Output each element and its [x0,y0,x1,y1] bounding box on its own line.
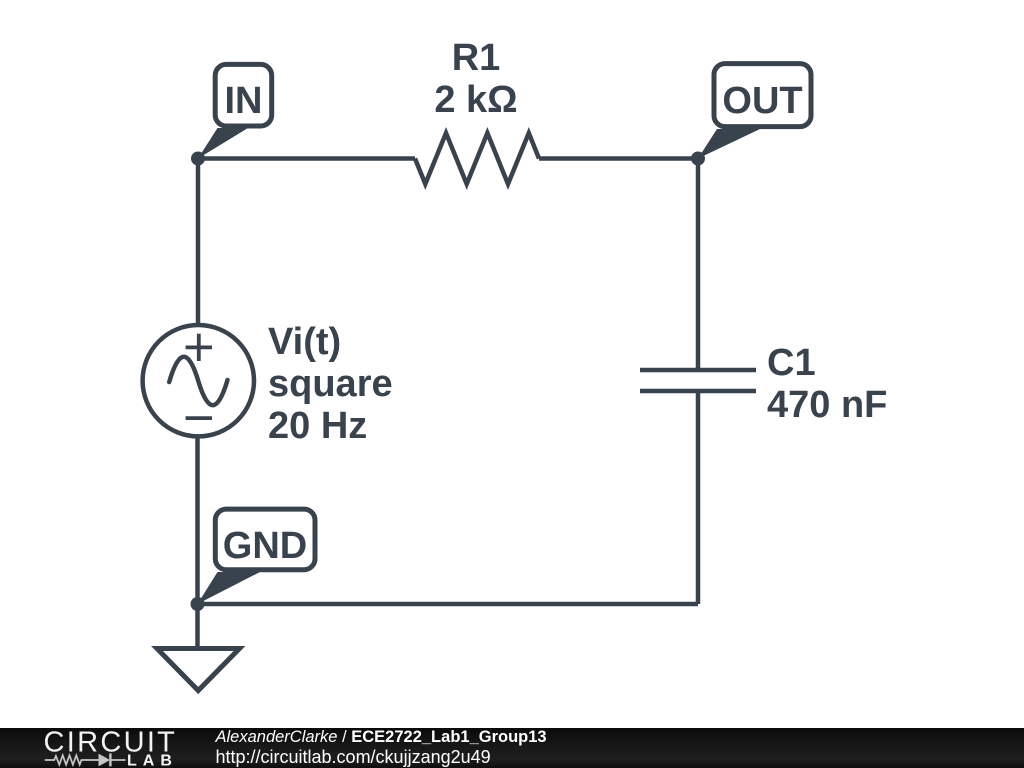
capacitor C1 plates [640,370,756,391]
node OUT flag box [714,64,811,127]
wire left vertical lower (source to GND node) [195,436,200,604]
wire GND stub down [195,604,200,648]
svg-text:2 kΩ: 2 kΩ [434,79,517,121]
svg-text:C1: C1 [767,342,816,384]
voltage source V1 sine [169,357,227,406]
wire bottom horizontal [198,602,699,607]
ground symbol [157,649,240,691]
voltage source V1 circle [143,325,254,436]
svg-text:GND: GND [223,525,307,567]
svg-text:LAB: LAB [127,753,178,768]
svg-text:R1: R1 [452,37,501,79]
svg-text:Vi(t): Vi(t) [268,321,341,363]
CircuitLab logo schematic squiggle (resistor + diode) [45,753,126,766]
svg-text:470 nF: 470 nF [767,384,887,426]
node IN flag box [215,64,272,126]
svg-text:IN: IN [225,80,263,122]
resistor R1 [415,133,539,184]
svg-text:AlexanderClarke / ECE2722_Lab1: AlexanderClarke / ECE2722_Lab1_Group13 [215,728,547,746]
svg-text:OUT: OUT [722,80,802,122]
svg-text:20 Hz: 20 Hz [268,405,367,447]
node OUT junction dot [691,152,705,166]
CircuitLab logo diode triangle [99,754,111,767]
node IN flag tail [198,128,248,159]
node GND junction dot [191,597,205,611]
svg-text:square: square [268,363,393,405]
svg-text:http://circuitlab.com/ckujjzan: http://circuitlab.com/ckujjzang2u49 [216,747,491,767]
wire top-right (resistor to OUT node) [539,156,698,161]
wire left vertical upper (IN node to source) [196,159,201,327]
wire top-left (IN node to resistor) [198,156,415,161]
voltage source V1 minus sign [186,416,212,420]
node IN junction dot [191,152,205,166]
node OUT flag tail [698,129,760,159]
wire right vertical upper (OUT node to cap) [696,159,701,371]
voltage source V1 plus sign [186,334,212,361]
node GND flag box [215,509,315,570]
wire right vertical lower (cap to bottom) [696,391,701,604]
node GND flag tail [198,572,261,604]
